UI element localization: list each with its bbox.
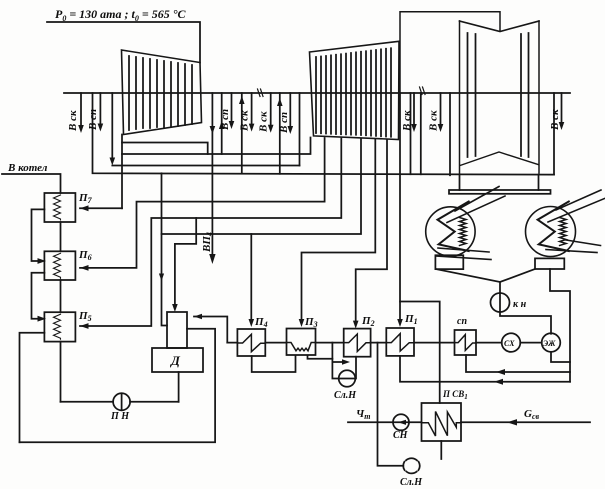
- svg-text:Сл.Н: Сл.Н: [400, 477, 423, 488]
- svg-text:Чт: Чт: [356, 408, 370, 421]
- svg-text:В сп: В сп: [87, 109, 99, 131]
- svg-text:сп: сп: [457, 316, 467, 327]
- svg-text:П Н: П Н: [110, 411, 130, 422]
- svg-text:Д: Д: [170, 353, 181, 368]
- svg-text:В ск: В ск: [401, 110, 413, 132]
- svg-text:ВП4: ВП4: [201, 232, 214, 253]
- svg-text:П3: П3: [304, 316, 318, 329]
- svg-text:В ск: В ск: [239, 110, 251, 132]
- svg-text:СХ: СХ: [504, 339, 515, 348]
- svg-text:СН: СН: [393, 430, 409, 441]
- svg-text:P0 = 130 ата ; t0 = 565 °С: P0 = 130 ата ; t0 = 565 °С: [55, 7, 186, 23]
- svg-text:В ск: В ск: [258, 111, 270, 133]
- svg-text:Gсв: Gсв: [524, 408, 540, 421]
- svg-text:ЭЖ: ЭЖ: [543, 339, 556, 348]
- svg-text:П6: П6: [78, 249, 92, 262]
- svg-text:П7: П7: [78, 192, 93, 205]
- svg-text:В котел: В котел: [7, 162, 48, 174]
- svg-text:В сп: В сп: [219, 109, 231, 131]
- svg-text:В сп: В сп: [278, 112, 290, 134]
- svg-text:В ск: В ск: [67, 110, 79, 132]
- svg-text:П5: П5: [78, 310, 92, 323]
- svg-text:к н: к н: [513, 299, 527, 310]
- svg-text:П2: П2: [361, 315, 375, 328]
- svg-text:П4: П4: [254, 316, 268, 329]
- svg-text:П1: П1: [404, 313, 418, 326]
- svg-text:П СВ1: П СВ1: [442, 389, 468, 401]
- svg-text:В ск: В ск: [428, 110, 440, 132]
- svg-text:Сл.Н: Сл.Н: [334, 390, 357, 401]
- svg-text:В ск: В ск: [549, 109, 561, 131]
